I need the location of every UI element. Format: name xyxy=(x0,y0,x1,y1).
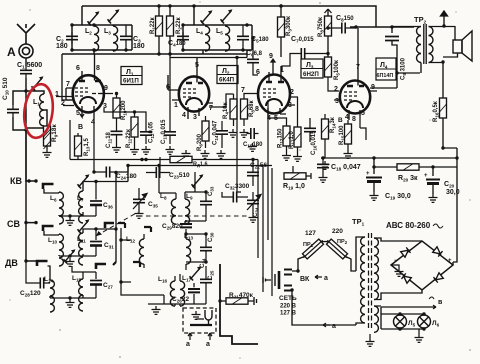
coil L12 xyxy=(139,239,144,264)
resistor R13 1,5 xyxy=(77,133,79,136)
svg-text:4: 4 xyxy=(345,114,349,121)
KB row: coil L7 xyxy=(83,166,128,192)
capacitor C5 xyxy=(237,32,249,44)
CB row bottom wire xyxy=(59,254,96,256)
ground under R12 xyxy=(282,152,291,160)
wire tank1 down to C24 xyxy=(93,119,95,172)
capacitor C14 0,047 xyxy=(216,127,228,139)
label box Л1 6И1П xyxy=(121,67,142,85)
trimmer tank2a xyxy=(201,10,213,24)
variable capacitor C34 xyxy=(252,192,254,196)
bridge diode 3 xyxy=(401,273,411,283)
coil L4 xyxy=(205,26,210,51)
node xyxy=(168,4,171,7)
svg-text:R3300к: R3300к xyxy=(286,16,292,36)
pickup connector dashed box xyxy=(183,308,216,333)
fuse ПР1 xyxy=(301,238,325,261)
svg-text:C4180: C4180 xyxy=(168,40,186,48)
CB row: coil L11 xyxy=(83,229,116,233)
transformer TP1 primary xyxy=(361,237,365,323)
svg-text:R918к: R918к xyxy=(51,124,58,142)
transformer TP2 primary xyxy=(417,27,422,63)
resistor R15 100 xyxy=(345,124,352,144)
resistor R1 22k xyxy=(158,6,160,16)
label box Л4 6П14П xyxy=(376,58,396,80)
svg-text:ПР1: ПР1 xyxy=(303,242,314,248)
capacitor C12 0,05 xyxy=(140,128,152,140)
TP1 core xyxy=(369,233,372,330)
svg-text:2: 2 xyxy=(61,100,65,107)
svg-text:180: 180 xyxy=(133,43,145,50)
tap wire L1 to R9 xyxy=(44,110,47,126)
electrolytic C20 30,0 xyxy=(426,167,440,194)
KB switch contact xyxy=(43,184,54,189)
svg-text:C70,015: C70,015 xyxy=(291,36,314,44)
capacitor C30 xyxy=(200,243,212,255)
ground under C11 xyxy=(112,144,121,152)
dashed gang coupling line xyxy=(96,212,248,236)
vertical through buses xyxy=(159,157,161,170)
svg-text:7: 7 xyxy=(209,105,213,112)
capacitor C15 180 xyxy=(247,128,259,139)
svg-text:5: 5 xyxy=(76,110,80,117)
bottom bus under tanks xyxy=(62,53,247,55)
svg-text:ВК: ВК xyxy=(300,276,310,283)
resistor R14 3k xyxy=(322,119,329,139)
ground under C19 xyxy=(370,192,379,200)
resistor R8 68k xyxy=(241,99,248,119)
mains plug СЕТЬ xyxy=(263,270,292,291)
svg-text:КВ: КВ xyxy=(10,176,22,186)
DB row: trimmer xyxy=(64,249,76,263)
svg-text:9: 9 xyxy=(269,53,273,60)
node xyxy=(192,4,195,7)
svg-text:R1122к: R1122к xyxy=(126,129,132,148)
svg-text:R19 1,0: R19 1,0 xyxy=(283,183,305,191)
capacitor C4 xyxy=(177,32,189,44)
ground under R11 xyxy=(130,146,139,154)
TP2 core xyxy=(424,24,426,64)
second bottom bus segment xyxy=(170,50,247,58)
svg-text:R171,0: R171,0 xyxy=(289,131,295,149)
mid bus 2 xyxy=(128,165,272,167)
capacitor C10 xyxy=(7,105,19,117)
DB row: capacitor C28 120 xyxy=(36,278,48,289)
bridge diode 2 xyxy=(433,247,443,257)
tube U2 (Л2 6К4П) envelope xyxy=(168,58,213,120)
trimmer row3 xyxy=(190,266,202,280)
ground DB row xyxy=(66,299,75,307)
red pen ellipse around L1 xyxy=(21,82,55,139)
coil L2 xyxy=(94,26,99,51)
svg-text:R5100к: R5100к xyxy=(334,60,340,80)
CB switch contact xyxy=(43,226,54,231)
ground under R15 xyxy=(344,150,353,158)
svg-text:а: а xyxy=(186,341,190,348)
capacitor C25 xyxy=(200,275,212,287)
svg-text:6П14П: 6П14П xyxy=(377,73,394,79)
coil L8 xyxy=(171,199,176,224)
lamp wires xyxy=(381,314,424,329)
tube U1 (Л1 6И1П) envelope xyxy=(56,54,113,119)
tube U4 pin numbers xyxy=(334,64,375,123)
tank1 frame wires xyxy=(72,25,132,54)
svg-text:3: 3 xyxy=(288,102,292,109)
node xyxy=(92,48,95,51)
bridge diode 4 xyxy=(433,273,443,283)
svg-text:8: 8 xyxy=(352,116,356,123)
ground CB row xyxy=(66,258,75,266)
ground row3 xyxy=(152,306,161,314)
svg-text:C1 5600: C1 5600 xyxy=(17,62,42,70)
svg-text:а: а xyxy=(206,341,210,348)
long vertical wires center xyxy=(258,100,272,296)
node xyxy=(354,25,357,28)
svg-text:СЕТЬ: СЕТЬ xyxy=(279,295,297,302)
svg-text:30,0: 30,0 xyxy=(446,189,460,196)
ground under R9 xyxy=(43,149,52,157)
coil L16 xyxy=(170,281,175,306)
node xyxy=(157,4,160,7)
TP2 secondary xyxy=(429,27,434,63)
node xyxy=(326,26,329,29)
wire L15 top to C27 top xyxy=(72,266,96,272)
svg-text:R131,5: R131,5 xyxy=(84,138,90,156)
resistor R3 300k xyxy=(280,6,282,17)
svg-text:R12150: R12150 xyxy=(278,128,284,148)
coil L13 xyxy=(186,239,191,264)
wire U4 pin5 down xyxy=(360,116,366,140)
CB row bottom-right hook xyxy=(96,264,106,269)
node xyxy=(326,52,329,55)
bridge ground xyxy=(391,265,399,268)
tank2 frame wires xyxy=(183,25,252,54)
svg-text:6И1П: 6И1П xyxy=(123,78,139,85)
svg-text:R15100: R15100 xyxy=(339,125,345,145)
svg-text:−: − xyxy=(394,258,398,264)
svg-text:C23510: C23510 xyxy=(169,172,190,179)
capacitor C3 xyxy=(120,32,132,44)
svg-text:5: 5 xyxy=(361,110,365,117)
svg-text:C120,05: C120,05 xyxy=(149,121,155,143)
capacitor C7 0,015 xyxy=(297,48,309,59)
tube U3 pin numbers xyxy=(241,53,294,122)
svg-text:СВ: СВ xyxy=(7,219,20,229)
resistor R12 150 xyxy=(283,126,290,146)
variable capacitor C35 xyxy=(138,188,140,195)
resistor R19 1,0 xyxy=(284,166,293,176)
KB wire xyxy=(26,130,36,181)
TP1 HV secondary xyxy=(374,238,378,300)
svg-text:R8750к: R8750к xyxy=(318,17,324,37)
step wire bottom center xyxy=(220,264,258,344)
svg-text:8: 8 xyxy=(96,65,100,72)
svg-text:C25: C25 xyxy=(208,270,214,280)
tube U2 pin numbers xyxy=(166,62,213,121)
right band vertical xyxy=(115,172,117,262)
bridge diode 1 xyxy=(401,247,411,257)
DB row: coil L15 xyxy=(79,279,83,311)
ground under lamps xyxy=(418,329,420,334)
svg-text:R122к: R122к xyxy=(150,17,156,34)
ground under R17 xyxy=(293,153,302,161)
wire tank2 to C32 xyxy=(237,58,241,193)
switch hook row3 xyxy=(133,262,140,267)
trimmer tank1b xyxy=(108,9,120,23)
svg-text:7: 7 xyxy=(66,81,70,88)
svg-text:6: 6 xyxy=(256,69,260,76)
switch hook row2 left xyxy=(118,223,125,228)
node xyxy=(24,128,27,131)
TP1 filament secondary xyxy=(374,306,378,332)
svg-text:R20 3к: R20 3к xyxy=(398,175,418,183)
capacitor C33 xyxy=(200,197,212,209)
capacitor C9 3100 xyxy=(391,27,393,33)
wire bus drop to tank2 xyxy=(193,6,195,25)
svg-text:C28120: C28120 xyxy=(20,290,41,297)
lamp Л6 xyxy=(418,314,431,329)
switch hook row2 mid xyxy=(144,227,151,232)
node xyxy=(245,23,248,26)
node xyxy=(24,89,27,92)
svg-text:R160,5к: R160,5к xyxy=(433,101,439,122)
svg-text:C9 3100: C9 3100 xyxy=(401,57,407,80)
DB row: capacitor C27 xyxy=(95,272,97,279)
electrolytic C19 30,0 xyxy=(366,167,382,192)
svg-text:4: 4 xyxy=(182,112,186,119)
svg-text:1: 1 xyxy=(174,102,178,109)
svg-text:127: 127 xyxy=(305,230,316,237)
capacitor C16 0,015 xyxy=(304,124,316,136)
TP2 wires xyxy=(392,27,455,74)
svg-text:9: 9 xyxy=(104,85,108,92)
ground in pickup box xyxy=(192,311,201,319)
svg-text:C33: C33 xyxy=(208,186,214,196)
diode bridge xyxy=(391,241,453,290)
ground KB row xyxy=(66,217,75,225)
node xyxy=(92,23,95,26)
DB row bottom wire xyxy=(50,295,96,298)
svg-text:127 В: 127 В xyxy=(280,311,297,317)
capacitor C11 18 xyxy=(111,127,123,139)
tube U3 (Л3 6Н2П) envelope xyxy=(247,58,298,118)
svg-text:В: В xyxy=(338,117,343,124)
svg-text:2: 2 xyxy=(290,89,294,96)
wire antenna to C1 xyxy=(25,58,27,66)
wire C1 to node xyxy=(25,78,27,182)
wire bus2 down to L8 xyxy=(159,166,176,200)
KB row: coil L6 xyxy=(44,189,59,193)
svg-text:6Н2П: 6Н2П xyxy=(303,71,319,78)
coil L3 xyxy=(113,26,118,51)
svg-text:C19 30,0: C19 30,0 xyxy=(385,193,411,201)
svg-text:7: 7 xyxy=(356,64,360,71)
svg-text:A: A xyxy=(7,45,16,59)
trimmer tank1a xyxy=(88,11,100,25)
capacitor C24 180 xyxy=(102,167,114,178)
pickup connector body xyxy=(190,310,212,325)
antenna A xyxy=(17,24,35,58)
resistor R4 10k xyxy=(230,99,237,119)
svg-text:C130,015: C130,015 xyxy=(161,119,167,144)
capacitor C26 22 xyxy=(188,283,200,304)
svg-text:7: 7 xyxy=(241,87,245,94)
capacitor C23 510 xyxy=(152,167,164,178)
label box Л3 6Н2П xyxy=(301,59,323,78)
svg-text:C10 510: C10 510 xyxy=(2,77,9,100)
bottom wire to TP1 xyxy=(292,290,356,325)
svg-text:2: 2 xyxy=(334,86,338,93)
ground under C18 xyxy=(319,174,328,182)
KB row: capacitor C36 xyxy=(95,182,97,200)
svg-text:C1118: C1118 xyxy=(106,131,112,148)
svg-text:в: в xyxy=(438,299,443,306)
coil L1 xyxy=(26,91,44,94)
CB wire xyxy=(26,181,36,223)
capacitor C8 150 xyxy=(338,23,350,34)
svg-text:R143к: R143к xyxy=(330,117,336,133)
tube U4 (Л4 6П14П) envelope xyxy=(334,28,377,120)
svg-text:а: а xyxy=(332,323,336,330)
svg-text:1: 1 xyxy=(55,91,59,98)
resistor R17 1,0 xyxy=(294,127,301,147)
capacitor C1 xyxy=(20,66,32,78)
CB row: trimmer xyxy=(78,219,90,233)
KB row bottom wire xyxy=(59,212,96,216)
ground under C20 xyxy=(429,194,438,202)
trimmer tank2b xyxy=(221,9,233,23)
svg-text:+: + xyxy=(424,173,428,179)
svg-text:8: 8 xyxy=(255,106,259,113)
resistor R20 3k xyxy=(374,158,397,167)
resistor Rd 1,6 in bus xyxy=(170,156,192,162)
svg-text:R222к: R222к xyxy=(176,17,182,34)
coil L17 xyxy=(180,281,185,306)
capacitor C10 branch xyxy=(13,91,26,130)
capacitor C18 0,047 xyxy=(317,160,329,172)
speaker xyxy=(443,26,472,61)
svg-text:В: В xyxy=(78,124,83,131)
svg-text:220: 220 xyxy=(332,228,343,235)
svg-text:180: 180 xyxy=(56,43,68,50)
svg-text:C140,047: C140,047 xyxy=(213,120,219,145)
svg-text:3: 3 xyxy=(193,114,197,121)
svg-text:3: 3 xyxy=(335,98,339,105)
svg-text:C24180: C24180 xyxy=(116,173,137,180)
wire row3 bottom xyxy=(148,295,206,304)
chassis arrow top right xyxy=(441,11,448,26)
DB wire xyxy=(26,223,36,261)
svg-text:ДВ: ДВ xyxy=(5,258,18,268)
resistor R6 200 xyxy=(202,121,209,141)
fuse ПР2 xyxy=(325,238,349,261)
resistor R16 0,5k xyxy=(440,98,447,118)
middle bus to filter xyxy=(321,157,457,159)
trimmer above L9 xyxy=(192,174,204,188)
svg-text:R410к: R410к xyxy=(223,102,229,119)
wire bus left drop to tank1 xyxy=(81,6,83,25)
svg-text:+: + xyxy=(448,258,452,264)
lamp Л5 xyxy=(394,314,407,329)
CB row: capacitor C31 xyxy=(95,229,97,240)
node xyxy=(115,92,118,95)
tube U1 pin numbers xyxy=(55,65,108,126)
resistor R8 750k xyxy=(327,9,329,16)
svg-text:220 В: 220 В xyxy=(280,304,297,310)
junction dots batch xyxy=(70,23,73,26)
resistor R5 100k xyxy=(325,57,332,77)
resistor R10 200 xyxy=(116,94,118,99)
svg-text:АВС 80-260: АВС 80-260 xyxy=(386,221,431,230)
capacitor C13 0,015 xyxy=(164,128,176,140)
coil L9 xyxy=(185,199,190,224)
svg-text:5: 5 xyxy=(195,62,199,69)
DB row: coil L14 xyxy=(48,266,51,280)
pickup terminals a xyxy=(188,333,192,340)
wire left end of bus1 up xyxy=(69,120,71,160)
coil L5 xyxy=(225,26,230,51)
svg-text:R6200: R6200 xyxy=(197,133,203,151)
trimmer on L1 xyxy=(32,76,44,90)
terminal a right of ВК xyxy=(315,275,322,279)
svg-text:+: + xyxy=(366,171,370,177)
svg-text:6: 6 xyxy=(166,84,170,91)
svg-text:ПР2: ПР2 xyxy=(337,239,348,245)
CB row: coil L10 xyxy=(44,231,59,235)
svg-text:R10200: R10200 xyxy=(121,100,127,120)
resistor R11 22k xyxy=(104,108,135,117)
svg-text:C29820: C29820 xyxy=(162,223,183,230)
svg-text:6: 6 xyxy=(76,65,80,72)
svg-text:C66,8: C66,8 xyxy=(246,50,263,58)
svg-text:C8150: C8150 xyxy=(336,15,354,23)
svg-text:C18 0,047: C18 0,047 xyxy=(331,164,361,172)
svg-text:а: а xyxy=(324,275,328,282)
svg-text:Rд1,6: Rд1,6 xyxy=(193,162,208,168)
svg-text:C30: C30 xyxy=(208,232,214,242)
ground row symbols xyxy=(142,146,151,154)
top bus wire xyxy=(82,6,414,27)
resistor R2 22k xyxy=(169,6,171,16)
svg-text:6К4П: 6К4П xyxy=(219,77,235,84)
svg-text:C160,015: C160,015 xyxy=(311,130,317,155)
capacitor C2 xyxy=(66,32,78,44)
node xyxy=(279,4,282,7)
wire tank1 to tube grid xyxy=(62,54,72,100)
mid bus 1 xyxy=(70,159,258,161)
resistor R9 18k xyxy=(44,126,51,146)
label box Л2 6К4П xyxy=(217,66,238,84)
wire speaker return down xyxy=(443,62,457,265)
KB row: trimmer xyxy=(78,174,90,188)
